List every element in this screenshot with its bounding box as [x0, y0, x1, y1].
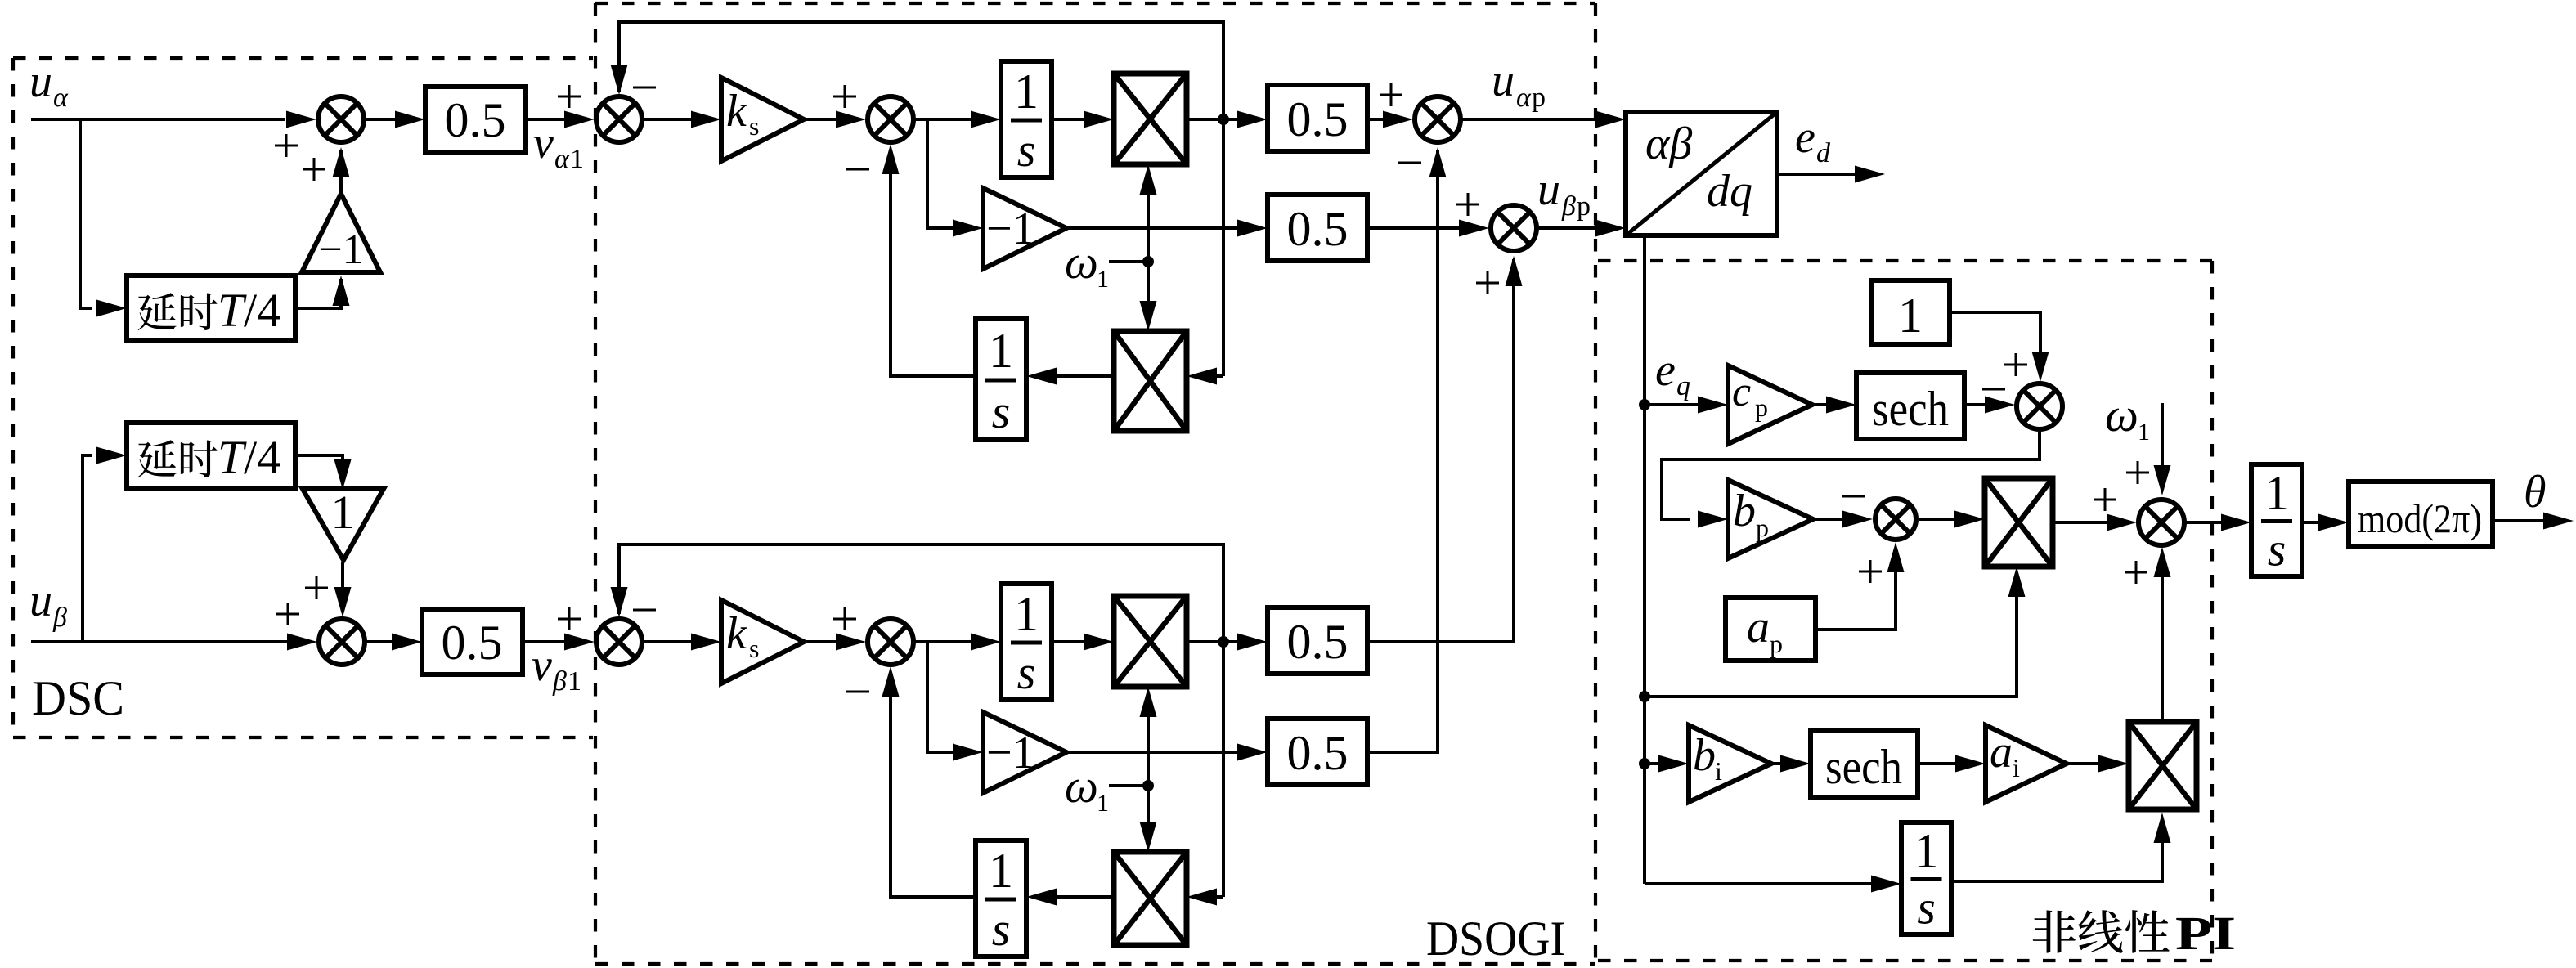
integrator 1/s box PI output — [2251, 464, 2302, 576]
gain 0.5 box (DSC alpha) — [425, 87, 526, 152]
plus sign final summer bottom — [2125, 561, 2147, 584]
minus sign at SOGI-alpha feedback input — [633, 87, 656, 89]
svg-text:1: 1 — [1014, 587, 1039, 641]
wire SOGI-beta to integrator 1 — [915, 634, 1001, 651]
node theta label — [2524, 467, 2547, 518]
gain bi triangle — [1689, 725, 1771, 802]
svg-text:−1: −1 — [318, 226, 363, 273]
svg-text:v: v — [533, 118, 554, 168]
wire bi to sech2 — [1771, 755, 1811, 773]
svg-text:β: β — [552, 666, 567, 697]
gain bp triangle — [1728, 480, 1813, 558]
SOGI-alpha error summer — [596, 96, 642, 142]
wire -1 gain to alpha summer — [333, 147, 350, 194]
constant 1 box — [1871, 280, 1950, 344]
svg-text:p: p — [1770, 629, 1783, 658]
svg-text:0.5: 0.5 — [445, 93, 506, 147]
feedback vertical wire SOGI-alpha — [1222, 119, 1225, 376]
feedback vertical wire SOGI-beta — [1222, 642, 1225, 897]
gain 0.5 box SOGI-beta row1 — [1268, 607, 1367, 674]
svg-text:i: i — [1715, 756, 1722, 786]
junction dot omega1 SOGI-alpha — [1142, 256, 1154, 267]
DSC block dashed border — [13, 58, 593, 737]
wire sech2 to ai gain — [1918, 755, 1986, 773]
plus sign at beta summer horizontal input — [276, 603, 299, 625]
wire SOGI-alpha to integrator 1 — [915, 111, 1001, 128]
wire ks to second summer SOGI-alpha — [804, 111, 866, 128]
svg-text:β: β — [52, 603, 67, 633]
final summer — [2138, 500, 2184, 545]
gain ks triangle SOGI-alpha — [721, 78, 804, 161]
node u_beta label — [29, 576, 67, 633]
integrator 1/s box SOGI-beta row1 — [1001, 584, 1052, 700]
node u_beta-p label — [1537, 164, 1591, 222]
svg-text:s: s — [2268, 522, 2287, 576]
svg-text:k: k — [726, 608, 747, 659]
svg-text:1: 1 — [2138, 419, 2150, 446]
node v_beta1 label — [532, 640, 581, 697]
svg-text:i: i — [2013, 753, 2020, 782]
wire multiplier to junction SOGI-beta — [1187, 640, 1223, 643]
wire e_q to cp gain — [1645, 397, 1728, 414]
svg-text:1: 1 — [989, 844, 1013, 898]
gain 0.5 box (DSC beta) — [422, 609, 523, 674]
wire ap to small summer — [1815, 542, 1905, 630]
svg-text:p: p — [1756, 513, 1769, 542]
gain -1 triangle (DSC alpha) — [302, 194, 380, 273]
gain -1 triangle SOGI-alpha — [983, 188, 1066, 269]
svg-text:s: s — [749, 634, 759, 663]
mod 2pi box — [2349, 482, 2493, 546]
minus sign at SOGI-alpha second summer bottom — [846, 168, 869, 171]
svg-text:−1: −1 — [986, 204, 1035, 254]
wire v_beta1 to DSOGI — [523, 634, 595, 651]
plus sign at SOGI-beta second summer — [833, 607, 856, 630]
svg-text:1: 1 — [568, 666, 581, 697]
wire multiplier P to final summer — [2053, 514, 2137, 531]
minus sign u_alpha-p bottom — [1398, 162, 1421, 164]
svg-text:1: 1 — [1014, 65, 1039, 119]
wire u_beta input — [31, 640, 311, 643]
gain 0.5 box SOGI-beta row2 — [1268, 719, 1367, 785]
label DSC — [32, 671, 124, 725]
wire feedback into multiplier2 SOGI-beta — [1187, 889, 1223, 906]
svg-text:1: 1 — [989, 324, 1013, 378]
multiplier X box SOGI-alpha row3 — [1114, 331, 1187, 431]
svg-text:1: 1 — [1898, 289, 1923, 343]
plus sign at alpha summer horizontal input — [275, 134, 298, 157]
gain 1 triangle (DSC beta) — [303, 486, 384, 560]
wire delay alpha to -1 gain — [295, 276, 350, 308]
label DSOGI — [1426, 912, 1565, 966]
wire alpha summer to 0.5 gain — [366, 111, 425, 128]
svg-text:u: u — [29, 56, 52, 107]
wire u_alpha-p to abdq — [1462, 111, 1626, 128]
wire integrator I to multiplier I — [1951, 813, 2171, 881]
junction dot omega1 SOGI-beta — [1142, 780, 1154, 791]
nonlinear-PI block dashed border — [1598, 261, 2212, 961]
wire u_alpha branch down to delay — [80, 119, 127, 317]
svg-text:1: 1 — [1097, 266, 1109, 293]
wire +1 gain to beta summer — [334, 562, 352, 617]
SOGI-beta second summer — [868, 619, 913, 665]
small summer (bp-ap) — [1875, 499, 1916, 540]
junction dot e_q tap — [1639, 399, 1650, 410]
label 非线性PI — [2033, 907, 2236, 960]
SOGI-beta top feedback wire — [611, 544, 1224, 642]
svg-text:/4: /4 — [244, 431, 280, 484]
svg-text:DSOGI: DSOGI — [1426, 912, 1565, 966]
wire omega1 down to multiplier2 SOGI-alpha — [1140, 262, 1157, 331]
wire omega1 PI to final summer — [2154, 403, 2171, 495]
wire -1 to 0.5 SOGI-alpha — [1066, 220, 1268, 237]
wire u_beta branch up to delay — [83, 447, 127, 643]
wire integrator to multiplier SOGI-alpha — [1052, 111, 1114, 128]
svg-text:b: b — [1733, 486, 1756, 536]
multiplier X box SOGI-alpha row1 — [1114, 74, 1187, 164]
svg-text:p: p — [1577, 191, 1591, 222]
node u_alpha label — [29, 56, 69, 113]
svg-text:p: p — [1755, 392, 1768, 422]
svg-text:q: q — [1676, 371, 1690, 401]
svg-text:0.5: 0.5 — [1287, 202, 1349, 256]
svg-text:b: b — [1693, 730, 1716, 781]
svg-text:sech: sech — [1872, 382, 1949, 436]
wire -1 to 0.5 SOGI-beta — [1066, 744, 1268, 761]
wire multiplier2 to integrator2 SOGI-alpha — [1026, 368, 1114, 385]
wire e_d output — [1777, 166, 1885, 183]
wire theta output — [2493, 513, 2574, 530]
wire from SOGI-beta row1 up to u_beta-p summer — [1367, 256, 1523, 642]
svg-text:−1: −1 — [986, 728, 1035, 778]
svg-text:s: s — [1017, 646, 1036, 699]
svg-text:u: u — [29, 576, 52, 626]
svg-text:T: T — [218, 284, 247, 337]
wire eq to multiplier P bottom — [1645, 567, 2026, 697]
sech box i-path — [1811, 731, 1918, 797]
DSOGI block dashed border — [595, 3, 1595, 964]
multiplier X box i-path — [2129, 722, 2197, 809]
plus sign u_alpha-p — [1380, 83, 1402, 106]
svg-text:θ: θ — [2524, 467, 2547, 518]
node e_q label — [1655, 345, 1690, 401]
wire omega1 up to multiplier SOGI-alpha — [1140, 164, 1157, 262]
sech box p-path — [1856, 373, 1964, 439]
junction dot e_q second tap — [1639, 691, 1650, 702]
svg-text:1: 1 — [570, 144, 584, 174]
gain0.5 alpha-row1 to u_alpha-p summer — [1367, 111, 1413, 128]
wire u_alpha input — [31, 118, 285, 121]
minus sign at sat summer — [1982, 388, 2005, 391]
svg-text:1: 1 — [1097, 790, 1109, 817]
svg-text:1: 1 — [2264, 466, 2289, 520]
svg-text:α: α — [554, 144, 570, 174]
minus sign at SOGI-beta feedback input — [633, 609, 656, 612]
wire SOGI-beta summer to ks gain — [644, 634, 721, 651]
wire multiplier2 to integrator2 SOGI-beta — [1026, 889, 1114, 906]
wire integrator2 to summer2 SOGI-beta — [882, 666, 976, 897]
svg-text:dq: dq — [1707, 166, 1752, 217]
alpha-beta to dq transform box — [1626, 112, 1777, 235]
wire omega1 SOGI-alpha — [1109, 260, 1148, 263]
junction dot e_q third tap — [1639, 758, 1650, 769]
multiplier X box p-path — [1985, 478, 2053, 567]
omega1 label PI — [2105, 388, 2150, 446]
wire omega1 up to multiplier SOGI-beta — [1140, 687, 1157, 786]
svg-text:sech: sech — [1825, 740, 1902, 794]
wire multiplier I to final summer — [2154, 547, 2171, 722]
wire omega1 down to multiplier2 SOGI-beta — [1140, 786, 1157, 852]
wire ks to second summer SOGI-beta — [804, 634, 866, 651]
wire eq down to integrator I — [1645, 876, 1901, 893]
wire u_beta-p to abdq — [1538, 220, 1626, 237]
wire bp to small summer — [1813, 511, 1873, 528]
wire eq to bi gain — [1645, 755, 1689, 773]
svg-text:0.5: 0.5 — [1287, 92, 1349, 146]
svg-text:s: s — [992, 385, 1011, 438]
junction dot SOGI-beta — [1218, 636, 1229, 648]
integrator 1/s box SOGI-beta row3 — [976, 840, 1026, 957]
wire sech to sat summer — [1964, 397, 2015, 414]
gain0.5 alpha-row2 to u_beta-p summer — [1367, 220, 1489, 237]
plus sign u_beta-p — [1456, 193, 1479, 216]
svg-text:s: s — [749, 111, 759, 141]
wire v_alpha1 to DSOGI — [526, 111, 595, 128]
wire sat summer to bp gain — [1662, 431, 2040, 528]
wire SOGI-alpha summer to ks gain — [644, 111, 721, 128]
plus sign at SOGI-alpha second summer — [833, 85, 856, 108]
plus sign at beta summer vertical input — [305, 576, 328, 599]
minus sign at SOGI-beta second summer bottom — [846, 691, 869, 693]
arrow junction to 0.5 SOGI-beta — [1223, 634, 1268, 651]
svg-text:e: e — [1795, 112, 1815, 163]
plus sign at SOGI-a input — [558, 85, 581, 108]
gain -1 triangle SOGI-beta — [983, 712, 1066, 793]
plus sign at alpha summer vertical input — [303, 158, 325, 181]
plus sign at SOGI-b input — [558, 607, 581, 630]
wire integrator2 to summer2 SOGI-alpha — [882, 144, 976, 376]
node e_d output label — [1795, 112, 1831, 168]
svg-text:α: α — [1516, 83, 1532, 113]
DSC alpha summer — [318, 96, 364, 142]
u_beta-p summer — [1491, 205, 1537, 251]
plus sign at sat summer top — [2004, 353, 2027, 376]
node u_alpha-p label — [1492, 56, 1546, 113]
svg-text:0.5: 0.5 — [442, 616, 503, 670]
omega1 label SOGI-alpha — [1065, 235, 1109, 293]
SOGI-alpha top feedback wire — [611, 22, 1224, 119]
gain ks triangle SOGI-beta — [721, 600, 804, 683]
svg-text:0.5: 0.5 — [1287, 615, 1349, 669]
wire cp to sech — [1812, 397, 1856, 414]
wire branch SOGI-alpha to -1 gain — [927, 119, 983, 237]
multiplier X box SOGI-beta row3 — [1114, 852, 1187, 945]
wire e_q vertical from abdq — [1643, 235, 1646, 884]
plus sign u_beta-p bottom — [1476, 271, 1499, 294]
delay T/4 box beta — [127, 423, 295, 488]
svg-text:T: T — [218, 431, 247, 484]
integrator 1/s box SOGI-alpha row3 — [976, 319, 1026, 440]
svg-text:a: a — [1990, 727, 2013, 778]
svg-text:s: s — [1017, 123, 1036, 177]
wire from SOGI-beta row2 up to u_alpha-p summer — [1367, 147, 1447, 752]
arrow junction to 0.5 SOGI-alpha — [1223, 111, 1268, 128]
svg-text:/4: /4 — [244, 284, 280, 337]
svg-text:c: c — [1732, 369, 1751, 415]
wire branch SOGI-beta to -1 gain — [927, 642, 983, 761]
svg-text:e: e — [1655, 345, 1676, 396]
svg-text:s: s — [1917, 881, 1936, 934]
wire integrator to multiplier SOGI-beta — [1052, 634, 1114, 651]
saturation summer — [2017, 383, 2062, 429]
wire beta summer to 0.5 gain — [366, 634, 422, 651]
svg-text:β: β — [1561, 191, 1576, 222]
wire ai to multiplier I — [2067, 755, 2129, 773]
wire final summer to integrator PI — [2186, 514, 2251, 531]
SOGI-alpha second summer — [868, 96, 913, 142]
DSC beta summer — [319, 619, 365, 665]
svg-text:α: α — [53, 83, 69, 113]
svg-text:ω: ω — [2105, 388, 2138, 441]
wire small summer to multiplier P — [1919, 511, 1985, 528]
svg-text:PI: PI — [2175, 907, 2236, 960]
arrow into DSC beta summer — [287, 634, 317, 651]
u_alpha-p summer — [1415, 96, 1461, 142]
svg-text:DSC: DSC — [32, 671, 124, 725]
delay T/4 box alpha — [127, 276, 295, 341]
arrow into DSC alpha summer — [286, 111, 316, 128]
wire integrator PI to mod box — [2302, 514, 2349, 531]
SOGI-beta error summer — [596, 619, 642, 665]
constant ap box — [1726, 598, 1815, 661]
svg-text:ω: ω — [1065, 760, 1098, 813]
gain 0.5 box SOGI-alpha row1 — [1268, 85, 1367, 151]
plus sign final summer left — [2094, 488, 2116, 511]
wire multiplier to junction SOGI-alpha — [1187, 118, 1223, 121]
svg-text:k: k — [726, 86, 747, 137]
wire feedback into multiplier2 SOGI-alpha — [1187, 368, 1223, 385]
svg-text:v: v — [532, 640, 552, 691]
gain ai triangle — [1986, 725, 2067, 802]
svg-text:1: 1 — [1914, 824, 1939, 878]
integrator 1/s box i-path — [1901, 822, 1951, 934]
svg-text:a: a — [1747, 602, 1770, 652]
svg-text:0.5: 0.5 — [1287, 726, 1349, 780]
svg-text:ω: ω — [1065, 235, 1098, 289]
wire omega1 SOGI-beta — [1109, 784, 1148, 787]
gain cp triangle — [1728, 365, 1812, 444]
svg-text:u: u — [1537, 164, 1560, 215]
svg-text:s: s — [992, 903, 1011, 956]
integrator 1/s box SOGI-alpha row1 — [1001, 61, 1052, 177]
svg-text:d: d — [1816, 138, 1831, 168]
omega1 label SOGI-beta — [1065, 760, 1109, 817]
junction dot SOGI-alpha — [1218, 114, 1229, 125]
plus sign final summer top — [2126, 461, 2149, 484]
node v_alpha1 label — [533, 118, 584, 174]
multiplier X box SOGI-beta row1 — [1114, 596, 1187, 687]
wire 1 to sat summer — [1950, 312, 2049, 382]
minus sign at small summer — [1842, 495, 1865, 498]
svg-text:1: 1 — [331, 486, 355, 539]
gain 0.5 box SOGI-alpha row2 — [1268, 195, 1367, 261]
svg-text:u: u — [1492, 56, 1515, 106]
svg-text:mod(2π): mod(2π) — [2358, 495, 2482, 541]
plus sign at small summer bottom — [1859, 560, 1882, 583]
svg-text:p: p — [1532, 83, 1546, 113]
svg-text:αβ: αβ — [1645, 119, 1692, 169]
wire delay beta to +1 gain — [295, 455, 352, 490]
